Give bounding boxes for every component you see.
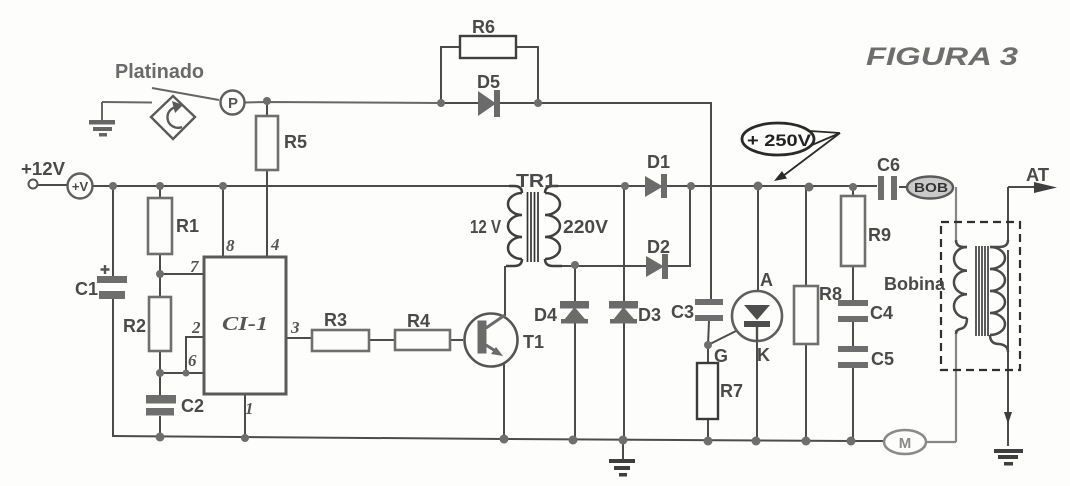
svg-text:TR1: TR1 <box>516 171 556 191</box>
svg-text:CI-1: CI-1 <box>222 313 268 335</box>
svg-text:C2: C2 <box>181 396 204 416</box>
svg-text:4: 4 <box>270 235 280 254</box>
svg-text:BOB: BOB <box>914 180 948 195</box>
svg-text:3: 3 <box>290 318 300 337</box>
svg-text:Platinado: Platinado <box>115 61 204 83</box>
svg-text:R7: R7 <box>720 381 743 401</box>
svg-text:FIGURA 3: FIGURA 3 <box>866 43 1018 71</box>
svg-text:C6: C6 <box>877 155 900 175</box>
svg-text:R2: R2 <box>123 316 146 336</box>
svg-text:12 V: 12 V <box>470 217 501 237</box>
svg-text:Bobina: Bobina <box>884 274 946 294</box>
svg-text:R8: R8 <box>819 284 842 304</box>
svg-text:D1: D1 <box>647 152 670 172</box>
svg-text:220V: 220V <box>563 217 608 237</box>
svg-text:T1: T1 <box>523 332 544 352</box>
svg-text:R9: R9 <box>868 225 891 245</box>
svg-text:+V: +V <box>72 179 89 194</box>
svg-text:D3: D3 <box>638 305 661 325</box>
svg-text:K: K <box>757 345 770 365</box>
svg-text:P: P <box>228 95 238 112</box>
svg-text:C3: C3 <box>671 302 694 322</box>
svg-text:R4: R4 <box>407 311 430 331</box>
svg-text:AT: AT <box>1026 165 1049 185</box>
svg-text:D5: D5 <box>477 72 500 92</box>
svg-text:R6: R6 <box>472 17 495 37</box>
svg-text:C4: C4 <box>870 303 893 323</box>
svg-text:A: A <box>760 270 773 290</box>
svg-text:R1: R1 <box>176 216 199 236</box>
svg-text:6: 6 <box>188 351 197 370</box>
svg-text:+ 250V: + 250V <box>747 131 812 150</box>
svg-text:D4: D4 <box>534 305 557 325</box>
svg-text:R3: R3 <box>324 310 347 330</box>
svg-text:1: 1 <box>245 399 254 418</box>
svg-text:D2: D2 <box>647 237 670 257</box>
svg-text:R5: R5 <box>284 132 307 152</box>
svg-text:C5: C5 <box>871 349 894 369</box>
svg-text:8: 8 <box>226 236 235 255</box>
svg-text:+12V: +12V <box>21 159 65 179</box>
svg-text:G: G <box>714 346 728 366</box>
svg-text:M: M <box>899 435 912 452</box>
svg-text:2: 2 <box>191 318 201 337</box>
svg-text:C1: C1 <box>75 279 98 299</box>
